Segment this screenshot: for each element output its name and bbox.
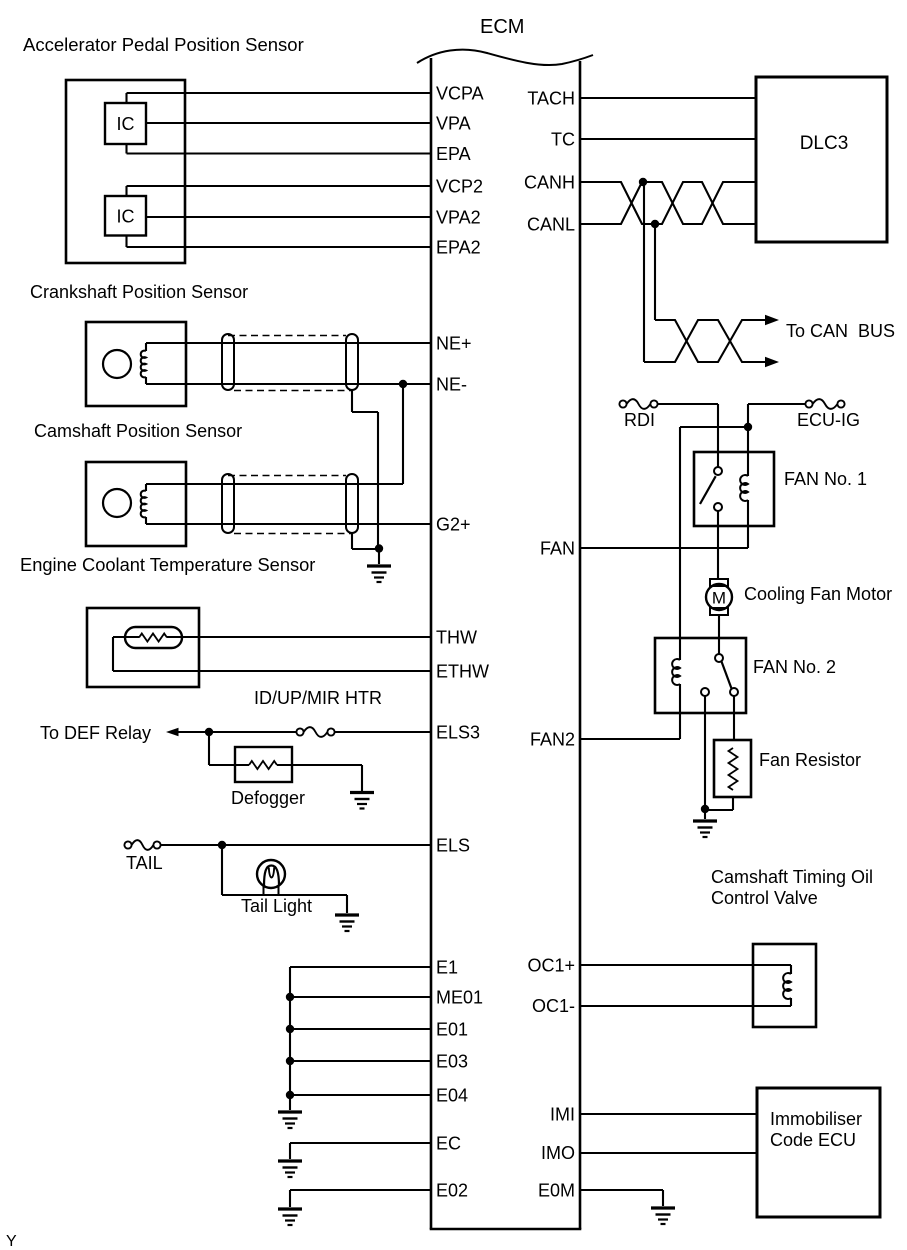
svg-text:E02: E02 [436,1181,468,1201]
svg-text:Engine Coolant Temperature Sen: Engine Coolant Temperature Sensor [20,554,315,575]
svg-text:EPA: EPA [436,144,471,164]
svg-text:ME01: ME01 [436,988,483,1008]
svg-text:Immobiliser: Immobiliser [770,1109,862,1129]
svg-text:THW: THW [436,628,477,648]
svg-text:Code ECU: Code ECU [770,1130,856,1150]
svg-text:CANL: CANL [527,215,575,235]
svg-text:VCPA: VCPA [436,84,484,104]
svg-text:FAN: FAN [540,539,575,559]
svg-text:ELS3: ELS3 [436,723,480,743]
svg-text:E0M: E0M [538,1181,575,1201]
svg-text:E01: E01 [436,1020,468,1040]
svg-text:FAN No. 2: FAN No. 2 [753,657,836,677]
svg-text:Camshaft Position Sensor: Camshaft Position Sensor [34,421,242,441]
svg-text:CANH: CANH [524,173,575,193]
svg-text:ID/UP/MIR HTR: ID/UP/MIR HTR [254,688,382,708]
svg-text:EPA2: EPA2 [436,238,481,258]
svg-text:E1: E1 [436,958,458,978]
svg-text:NE-: NE- [436,375,467,395]
svg-text:TACH: TACH [527,89,575,109]
svg-text:IC: IC [117,114,135,134]
svg-text:FAN2: FAN2 [530,730,575,750]
svg-text:DLC3: DLC3 [800,133,849,154]
svg-text:Cooling Fan Motor: Cooling Fan Motor [744,584,892,604]
svg-text:VCP2: VCP2 [436,177,483,197]
svg-text:NE+: NE+ [436,334,472,354]
svg-text:EC: EC [436,1134,461,1154]
svg-text:Fan Resistor: Fan Resistor [759,750,861,770]
svg-text:ECU-IG: ECU-IG [797,410,860,430]
svg-text:Crankshaft Position Sensor: Crankshaft Position Sensor [30,282,248,302]
svg-text:To CAN BUS: To CAN BUS [786,321,895,341]
svg-text:TC: TC [551,130,575,150]
svg-text:FAN No. 1: FAN No. 1 [784,469,867,489]
svg-text:To DEF Relay: To DEF Relay [40,723,151,743]
svg-text:VPA2: VPA2 [436,208,481,228]
svg-text:IC: IC [117,207,135,227]
svg-text:RDI: RDI [624,410,655,430]
svg-text:E04: E04 [436,1086,468,1106]
svg-text:TAIL: TAIL [126,853,163,873]
svg-text:Y: Y [6,1233,17,1250]
svg-text:VPA: VPA [436,114,471,134]
svg-text:E03: E03 [436,1052,468,1072]
svg-text:IMI: IMI [550,1105,575,1125]
svg-text:OC1-: OC1- [532,996,575,1016]
svg-text:G2+: G2+ [436,515,471,535]
svg-text:OC1+: OC1+ [527,956,575,976]
svg-text:Accelerator Pedal Position Sen: Accelerator Pedal Position Sensor [23,34,304,55]
svg-text:Defogger: Defogger [231,788,305,808]
svg-text:Tail Light: Tail Light [241,896,312,916]
svg-text:ETHW: ETHW [436,662,489,682]
svg-text:ELS: ELS [436,836,470,856]
svg-text:M: M [712,589,726,608]
svg-text:ECM: ECM [480,16,524,38]
svg-text:Control Valve: Control Valve [711,888,818,908]
svg-text:Camshaft Timing Oil: Camshaft Timing Oil [711,867,873,887]
svg-text:IMO: IMO [541,1143,575,1163]
